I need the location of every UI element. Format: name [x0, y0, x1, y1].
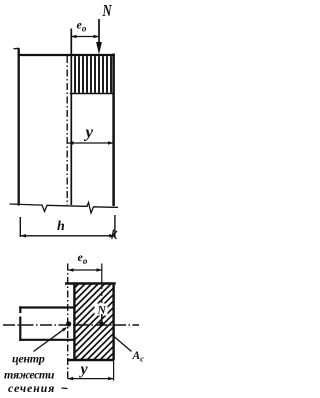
N label halo (section): [95, 304, 108, 316]
vertical centroid axis (section, dash-dot): [67, 264, 69, 381]
e0 right arrowhead: [94, 35, 100, 39]
member right edge (elevation): [112, 54, 115, 207]
centroid point dot: [66, 321, 71, 326]
stem left edge / compressed zone boundary (section): [73, 283, 75, 360]
N line of action through hatch (dashed): [101, 285, 103, 314]
N line of action extension (section, solid above stem): [101, 264, 103, 284]
h dimension right extension line: [114, 215, 116, 237]
compressed area diagonal hatching (section): [74, 283, 113, 360]
h dimension left extension line: [19, 217, 21, 237]
y left arrowhead (section): [68, 377, 74, 381]
force N arrowhead: [96, 42, 102, 55]
y dimension line (elevation): [68, 142, 114, 144]
flange top edge (section): [19, 306, 74, 308]
tick at top of left edge: [14, 47, 20, 50]
e0 dimension line (top): [71, 36, 99, 38]
N application point stub: [101, 314, 103, 322]
centroid axis (elevation, dash-dot): [66, 56, 68, 205]
compressed zone boundary line (e0 extension continuing down member): [70, 29, 72, 206]
flange left broken edge lower part: [19, 317, 21, 342]
svg-text:y: y: [79, 361, 89, 378]
svg-text:eo: eo: [77, 18, 87, 34]
h dimension line: [20, 235, 115, 237]
stray k mark (right of h dimension): [112, 230, 117, 240]
svg-text:тяжести: тяжести: [4, 368, 55, 382]
h right arrowhead: [109, 234, 115, 238]
svg-text:центр: центр: [12, 352, 45, 366]
svg-text:N: N: [102, 2, 113, 20]
compressed zone vertical hatching (elevation): [75, 56, 111, 93]
e0 left arrowhead: [71, 35, 77, 39]
force N line of action: [98, 19, 100, 43]
stem right edge (section): [112, 283, 114, 361]
flange bottom edge (section): [19, 339, 74, 341]
leader line from text to centroid: [34, 328, 67, 352]
small dash after secheniya: [62, 387, 68, 390]
break line with zigzags (bottom of elevation): [10, 203, 119, 214]
Ac leader line: [114, 337, 132, 352]
y right arrowhead (section): [108, 377, 114, 381]
leader arrowhead at centroid: [62, 327, 67, 331]
y right arrowhead: [108, 141, 114, 145]
svg-text:eo: eo: [78, 250, 88, 266]
svg-text:h: h: [57, 219, 65, 234]
force N label (top): [102, 2, 113, 20]
h left arrowhead: [20, 234, 26, 238]
horizontal centroid axis (section, dash-dot): [3, 324, 139, 326]
svg-text:y: y: [84, 123, 94, 142]
member left edge (elevation): [18, 48, 20, 205]
y dimension line (section): [68, 378, 114, 380]
y left arrowhead: [68, 141, 74, 145]
y dimension right extension (section): [113, 361, 115, 381]
svg-text:сечения: сечения: [8, 381, 55, 395]
compressed zone bottom boundary (elevation): [70, 93, 114, 95]
flange left broken edge upper part: [19, 306, 21, 313]
stem bottom edge (section): [67, 359, 114, 361]
member top edge (elevation): [18, 54, 115, 56]
N application point dot: [99, 322, 104, 327]
e0 right arrowhead (section): [97, 268, 103, 272]
stem top edge (section): [65, 282, 116, 285]
e0 dimension line (section): [68, 269, 102, 271]
svg-text:Ас: Ас: [132, 350, 145, 364]
e0 left arrowhead (section): [68, 268, 74, 272]
